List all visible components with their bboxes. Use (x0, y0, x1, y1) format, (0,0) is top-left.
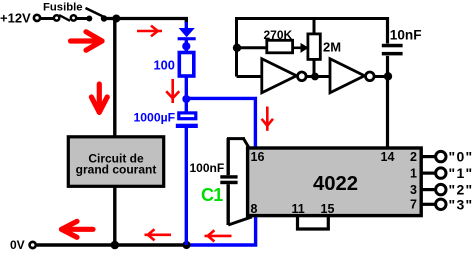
svg-text:3: 3 (410, 183, 417, 197)
resistor 270K (267, 40, 293, 53)
terminal output 3 (436, 199, 446, 209)
svg-text:10nF: 10nF (390, 28, 422, 43)
wire bottom rail black (37, 243, 187, 246)
svg-text:"1": "1" (449, 165, 472, 181)
wire pins 11-15 link (298, 216, 329, 230)
svg-text:1: 1 (410, 167, 417, 181)
potentiometer 2M (308, 19, 320, 77)
current arrow big down (91, 84, 107, 112)
terminal output 2 (436, 184, 446, 194)
wire (77, 17, 88, 20)
terminal 0V (30, 242, 36, 248)
resistor 100 (179, 53, 194, 77)
wire (41, 17, 54, 20)
svg-text:"2": "2" (449, 182, 472, 198)
svg-text:15: 15 (321, 202, 335, 216)
switch S1 (86, 8, 108, 22)
IC U2 4022 (248, 148, 422, 216)
wire right rail lower to pin 14 (386, 56, 389, 148)
svg-text:"3": "3" (449, 196, 472, 212)
svg-text:14: 14 (381, 150, 395, 164)
svg-text:16: 16 (251, 150, 265, 164)
wire oscillator left rail (235, 17, 238, 77)
current arrow small down (resistor) (166, 79, 179, 103)
output pin 1 stub (421, 172, 436, 175)
svg-text:C1: C1 (201, 185, 223, 205)
inverter U1B (330, 59, 374, 93)
svg-text:2M: 2M (323, 40, 341, 55)
current arrow big right (71, 32, 103, 50)
capacitor 10nF (382, 44, 403, 56)
junction dot (112, 15, 120, 23)
svg-text:grand courant: grand courant (76, 162, 157, 176)
oscillator frame top wire (237, 17, 388, 20)
current arrow big left (bottom) (62, 221, 94, 237)
terminal +12V (34, 15, 40, 21)
LED D1 (178, 22, 196, 53)
current arrow small left (bottom 1) (145, 229, 172, 240)
output pin 3 stub (421, 188, 436, 191)
wire (185, 128, 188, 245)
fuse F1 (54, 15, 76, 21)
wiper arrow into potentiometer (293, 43, 309, 53)
capacitor C1 100nF (220, 138, 252, 225)
svg-text:4022: 4022 (313, 173, 358, 195)
wire top rail (104, 17, 188, 20)
wire (237, 46, 267, 49)
svg-text:8: 8 (251, 202, 258, 216)
terminal output 0 (436, 151, 446, 161)
junction dot (182, 241, 190, 249)
svg-text:2: 2 (410, 150, 417, 164)
wire (185, 76, 188, 99)
junction dot (384, 72, 392, 80)
svg-text:100: 100 (154, 57, 175, 72)
current arrow small left (bottom 2) (205, 230, 232, 241)
svg-text:7: 7 (410, 198, 417, 212)
wire blue to pin 16 (186, 98, 255, 148)
terminal output 1 (436, 168, 446, 178)
wire right rail upper (386, 17, 389, 44)
output pin 2 stub (421, 155, 436, 158)
svg-text:11: 11 (292, 202, 305, 216)
inverter U1A (262, 59, 306, 93)
wire (185, 99, 188, 112)
wire inverter1 input (237, 75, 262, 78)
junction dot blue (182, 95, 190, 103)
wire LED anode stub (185, 19, 188, 24)
svg-text:+12V: +12V (0, 11, 31, 26)
wire left rail (113, 19, 116, 246)
capacitor 1000uF polarized (176, 113, 198, 128)
wire bottom rail blue to pin 8 (187, 217, 256, 246)
block: Circuit de grand courant (68, 137, 163, 187)
junction dot (311, 73, 319, 81)
output pin 7 stub (421, 203, 436, 206)
svg-text:Fusible: Fusible (43, 2, 83, 14)
wire (306, 75, 330, 78)
wire (374, 75, 387, 78)
junction dot (111, 241, 120, 250)
svg-text:"0": "0" (449, 149, 472, 165)
junction dot (233, 44, 241, 52)
svg-text:1000µF: 1000µF (134, 110, 176, 124)
svg-text:100nF: 100nF (190, 161, 225, 175)
svg-text:0V: 0V (10, 238, 25, 252)
current arrow small down (pin16) (262, 107, 273, 131)
current arrow small right (top) (137, 26, 162, 37)
